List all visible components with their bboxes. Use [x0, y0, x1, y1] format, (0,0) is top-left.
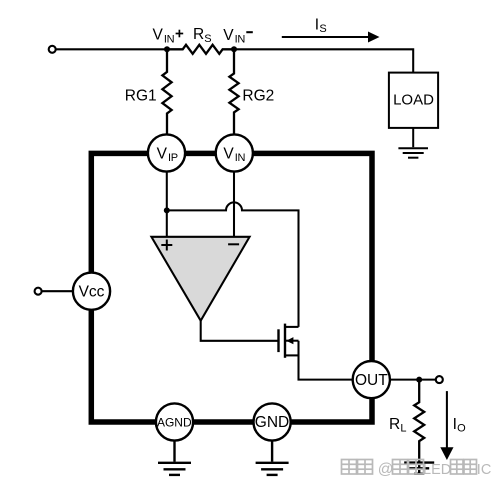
pin circle VIN	[216, 134, 253, 171]
op-amp U1	[151, 237, 249, 321]
svg-text:L: L	[400, 423, 406, 435]
svg-text:RG2: RG2	[242, 88, 274, 105]
op-amp minus input mark	[228, 243, 239, 245]
svg-text:R: R	[193, 26, 204, 43]
svg-text:IN: IN	[235, 152, 246, 164]
watermark glyph dong	[464, 460, 477, 475]
pin circle Vcc	[73, 273, 110, 310]
watermark glyph hu	[358, 460, 373, 475]
LOAD box	[389, 73, 438, 128]
wire input to VIN+ node	[56, 48, 167, 50]
node VIN-	[231, 46, 237, 52]
watermark glyph xiang	[409, 460, 424, 475]
wire op-amp output to MOSFET gate	[201, 321, 278, 341]
watermark latin text	[378, 461, 492, 478]
resistor RG1	[162, 49, 171, 134]
wire VIP to +input with junction	[166, 172, 168, 237]
svg-text:IN: IN	[235, 34, 246, 46]
label IS	[315, 16, 327, 35]
svg-text:V: V	[153, 27, 164, 44]
svg-text:IP: IP	[168, 152, 178, 164]
svg-text:@: @	[378, 461, 394, 478]
svg-text:IC: IC	[477, 462, 492, 478]
svg-text:S: S	[319, 23, 326, 35]
gate bar	[277, 329, 279, 352]
transistor Q1 (NMOS)	[279, 324, 286, 358]
watermark glyph zhi	[342, 460, 357, 475]
svg-text:V: V	[223, 145, 234, 162]
IC body rectangle	[91, 153, 372, 422]
wire VIN- to LOAD	[234, 49, 413, 72]
resistor RG2	[229, 49, 238, 134]
body line with arrow	[285, 340, 299, 342]
wire drain stub	[286, 326, 299, 328]
svg-text:O: O	[457, 423, 466, 435]
resistor RL	[414, 380, 424, 462]
wire OUT to output terminal	[390, 379, 436, 381]
svg-text:GND: GND	[255, 414, 289, 431]
svg-text:AGND: AGND	[157, 416, 192, 430]
svg-text:S: S	[204, 33, 211, 45]
op-amp plus input mark	[161, 240, 172, 251]
wire VIN pin to -input	[233, 172, 235, 237]
current arrow IO	[440, 391, 453, 460]
wire junction to MOSFET drain (with hop over VIN wire)	[167, 202, 299, 327]
resistor RS	[167, 45, 234, 54]
label RL	[389, 416, 407, 435]
output terminal	[436, 376, 443, 383]
current arrow IS	[282, 32, 380, 43]
label VIN-	[223, 27, 253, 46]
svg-text:OUT: OUT	[355, 372, 388, 389]
svg-text:LED: LED	[423, 462, 451, 478]
svg-text:LOAD: LOAD	[393, 92, 434, 109]
watermark	[342, 460, 477, 475]
pin circle AGND	[156, 403, 193, 440]
wire source to OUT	[299, 341, 354, 380]
svg-text:IN: IN	[164, 33, 175, 45]
label RS	[193, 26, 212, 45]
wire Vcc terminal to pin	[42, 290, 73, 292]
pin circle OUT	[353, 361, 390, 398]
node RL junction	[416, 377, 422, 383]
ground below LOAD	[398, 128, 428, 158]
svg-text:RG1: RG1	[125, 88, 157, 105]
watermark glyph yuan	[393, 460, 408, 475]
input terminal (top left)	[49, 46, 56, 53]
watermark glyph qu	[451, 460, 464, 475]
label VIN+	[153, 27, 184, 46]
channel bar	[284, 324, 286, 358]
svg-text:R: R	[389, 416, 400, 433]
pin circle GND	[254, 403, 291, 440]
svg-text:V: V	[157, 145, 168, 162]
node VIN+	[164, 46, 170, 52]
ground below RL	[404, 462, 434, 475]
node feedback junction	[164, 207, 170, 213]
Vcc terminal	[35, 288, 42, 295]
ground below AGND	[158, 441, 191, 475]
ground below GND	[256, 441, 289, 475]
pin circle VIP	[148, 134, 185, 171]
label IO	[453, 416, 467, 435]
svg-text:Vcc: Vcc	[79, 283, 105, 300]
svg-text:V: V	[223, 27, 234, 44]
source stub	[285, 354, 299, 356]
